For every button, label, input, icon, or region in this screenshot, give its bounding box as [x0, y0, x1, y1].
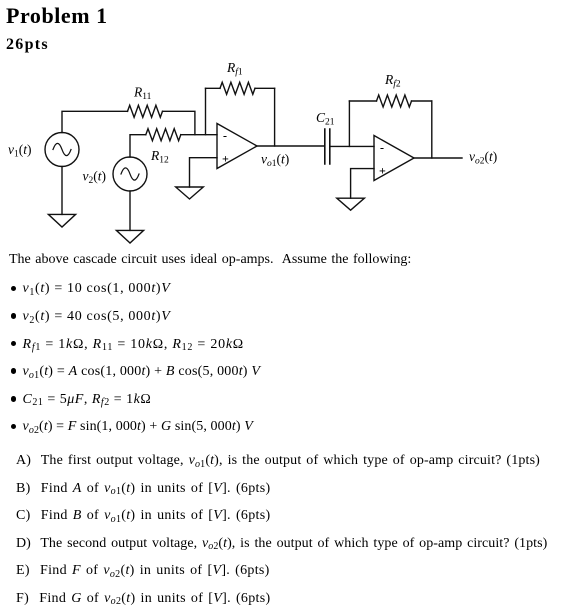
wire Rf2 right vertical to output — [431, 101, 433, 158]
wire R11 right down to inverting rail — [163, 111, 195, 134]
svg-text:R12: R12 — [150, 148, 169, 166]
wire v2 top to R12 — [130, 135, 146, 157]
svg-text:+: + — [222, 152, 229, 166]
wire U2 noninverting to ground — [351, 169, 374, 199]
voltage source v1 — [45, 133, 79, 167]
svg-text:Rf2: Rf2 — [384, 72, 401, 90]
svg-text:vo2(t): vo2(t) — [469, 149, 497, 167]
svg-text:C21: C21 — [316, 110, 335, 128]
wire U1 noninverting to ground — [190, 158, 218, 187]
ground (U1 +) — [176, 187, 204, 199]
wire U2 output — [414, 157, 462, 159]
svg-text:v1(t): v1(t) — [8, 142, 32, 160]
svg-text:v2(t): v2(t) — [83, 169, 107, 187]
svg-text:-: - — [380, 141, 384, 155]
wire Rf1 left vertical — [205, 88, 207, 134]
svg-text:vo1(t): vo1(t) — [261, 152, 289, 170]
svg-text:-: - — [223, 129, 227, 143]
wire v1 top to R11 — [62, 111, 128, 132]
resistor Rf2 — [349, 100, 376, 102]
resistor Rf1 — [206, 87, 221, 89]
wire U1 output to C21 — [257, 145, 325, 147]
ground (U2 +) — [337, 198, 365, 210]
wire v1 bottom to ground — [61, 167, 63, 215]
wire Rf1 right vertical to output — [274, 88, 276, 146]
resistor R11 — [128, 105, 163, 117]
capacitor C21 — [325, 129, 330, 164]
svg-text:Rf1: Rf1 — [226, 60, 243, 78]
ground (v1) — [48, 214, 75, 227]
wire v2 bottom to ground — [129, 191, 131, 230]
wire C21 to op-amp U2 — [330, 145, 374, 147]
resistor R12 — [146, 129, 181, 141]
svg-text:R11: R11 — [133, 85, 152, 103]
voltage source v2 — [113, 157, 147, 191]
op-amp U1 — [217, 124, 257, 169]
wire Rf2 left vertical — [348, 101, 350, 146]
wire inverting node to op-amp U1 — [181, 134, 217, 136]
op-amp U2 — [374, 136, 414, 181]
ground (v2) — [116, 230, 143, 243]
svg-text:+: + — [379, 164, 386, 178]
